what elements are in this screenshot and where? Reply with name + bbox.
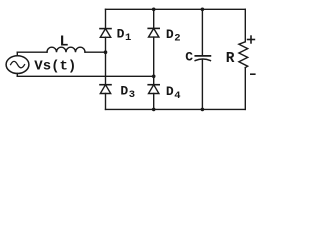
svg-text:C: C bbox=[185, 50, 193, 65]
svg-text:3: 3 bbox=[129, 89, 135, 101]
wire source top stub bbox=[16, 52, 18, 56]
label D1 bbox=[117, 27, 132, 45]
diode D4 bbox=[148, 76, 159, 109]
svg-text:R: R bbox=[226, 51, 235, 67]
wire left branch mid segment bbox=[105, 52, 107, 84]
wire source bottom stub bbox=[16, 73, 18, 76]
svg-text:L: L bbox=[60, 33, 69, 50]
diode D3 bbox=[100, 85, 111, 110]
label D4 bbox=[166, 84, 181, 102]
label Vs(t) bbox=[34, 58, 76, 74]
label R bbox=[226, 51, 235, 67]
resistor R bbox=[239, 9, 248, 109]
label D3 bbox=[120, 83, 135, 101]
minus polarity mark bbox=[251, 73, 255, 75]
junction dot bottom rail at D4 bbox=[152, 108, 156, 112]
junction dot bottom rail at C bbox=[201, 108, 205, 112]
label C bbox=[185, 50, 193, 65]
wire top from source to inductor bbox=[17, 51, 47, 53]
diode D2 bbox=[148, 9, 159, 76]
svg-text:2: 2 bbox=[174, 33, 180, 45]
svg-text:D: D bbox=[166, 27, 174, 42]
node A junction dot (bridge left mid) bbox=[104, 50, 108, 54]
wire inductor to bridge left node bbox=[85, 51, 106, 53]
svg-text:D: D bbox=[117, 27, 125, 42]
diode D1 bbox=[100, 9, 111, 52]
capacitor C bbox=[195, 9, 210, 109]
svg-text:4: 4 bbox=[174, 90, 180, 102]
svg-text:Vs(t): Vs(t) bbox=[34, 58, 76, 74]
junction dot top rail at C bbox=[201, 8, 205, 12]
svg-text:D: D bbox=[120, 83, 128, 98]
wire top rail bbox=[106, 8, 246, 10]
wire bottom from source to bridge right node bbox=[17, 75, 153, 77]
junction dot top rail at D2 bbox=[152, 8, 156, 12]
label D2 bbox=[166, 27, 181, 45]
inductor L bbox=[47, 47, 85, 52]
svg-text:1: 1 bbox=[125, 32, 131, 44]
node B junction dot (bridge right mid) bbox=[152, 75, 156, 79]
wire bottom rail bbox=[106, 108, 246, 110]
plus polarity mark bbox=[248, 36, 255, 43]
svg-text:D: D bbox=[166, 84, 174, 99]
label L bbox=[60, 33, 69, 50]
ac source Vs bbox=[6, 56, 29, 74]
